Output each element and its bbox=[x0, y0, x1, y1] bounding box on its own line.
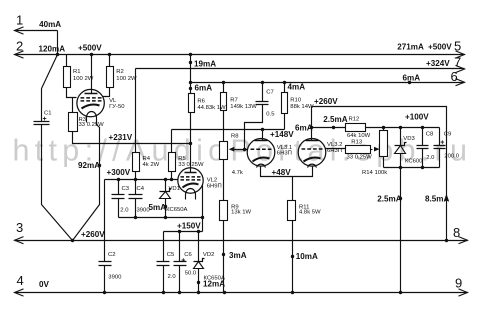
svg-text:C8: C8 bbox=[426, 132, 434, 138]
zener VD2 KC650A bbox=[194, 259, 205, 262]
R8 wiper arrow bbox=[229, 147, 235, 152]
wire +260V top bbox=[312, 107, 447, 241]
svg-text:8.5mA: 8.5mA bbox=[425, 194, 449, 203]
svg-text:6Н9П: 6Н9П bbox=[207, 183, 222, 189]
junction R4-C4 / +300V node bbox=[134, 178, 137, 181]
VL3.1 filament dome bbox=[257, 164, 266, 167]
terminal 6 arrow bbox=[456, 79, 465, 86]
svg-text:+260V: +260V bbox=[314, 97, 338, 106]
measure dot 92mA bbox=[98, 164, 101, 167]
terminal 8 arrow bbox=[459, 237, 468, 244]
resistor R8 bbox=[220, 142, 228, 160]
svg-text:6mA: 6mA bbox=[403, 73, 421, 82]
wire VL3.2 anode riser bbox=[311, 107, 313, 141]
VL2 anode bar bbox=[185, 172, 197, 174]
wire R3 riser bbox=[72, 98, 74, 113]
junction terminal1 drop / +500V rail bbox=[56, 53, 59, 56]
wire R5 riser bbox=[171, 130, 173, 180]
R14 wiper arrow bbox=[374, 147, 380, 152]
resistor R12 bbox=[346, 124, 366, 132]
VL1 cathode arc bbox=[82, 105, 100, 109]
wire vertical to R4 top bbox=[135, 69, 137, 153]
wire C2 riser bbox=[104, 180, 106, 293]
wire VL3.1 anode drop bbox=[262, 130, 264, 141]
junction R9 / 0V rail bbox=[223, 291, 226, 294]
svg-text:33 0.25W: 33 0.25W bbox=[178, 162, 204, 168]
svg-text:C3: C3 bbox=[122, 186, 130, 192]
measure dot 5mA bbox=[164, 205, 167, 208]
svg-text:2: 2 bbox=[16, 39, 23, 54]
measure dot 12mA bbox=[197, 281, 200, 284]
wire R9 chain bbox=[223, 160, 225, 293]
junction C8 bottom node bbox=[421, 166, 424, 169]
svg-text:8: 8 bbox=[453, 225, 460, 240]
svg-text:КС600: КС600 bbox=[405, 158, 423, 164]
resistor R4 bbox=[133, 153, 140, 172]
wire 19mA/6mA branch bbox=[190, 55, 192, 94]
measure dot 6mA terminal6 bbox=[408, 81, 411, 84]
svg-text:R13: R13 bbox=[351, 139, 363, 145]
svg-text:50.0: 50.0 bbox=[185, 270, 197, 276]
junction VL1 anode / +500V rail bbox=[90, 53, 93, 56]
svg-text:13k 1W: 13k 1W bbox=[231, 209, 251, 215]
wire R2 screen lead bbox=[103, 55, 110, 97]
svg-text:C6: C6 bbox=[184, 252, 192, 258]
svg-text:+: + bbox=[181, 258, 185, 265]
wire R1 grid lead bbox=[67, 55, 77, 98]
wire node C3C4VD1 horizontal bbox=[119, 217, 203, 219]
svg-text:C9: C9 bbox=[444, 132, 452, 138]
wire +100V node bbox=[312, 127, 440, 129]
measure dot 2.5mA lower bbox=[399, 197, 402, 200]
junction R2 / +500V rail bbox=[108, 53, 111, 56]
svg-text:R14 100k: R14 100k bbox=[362, 170, 387, 176]
svg-text:R2: R2 bbox=[116, 69, 124, 75]
svg-text:+260V: +260V bbox=[81, 230, 105, 239]
svg-text:10mA: 10mA bbox=[296, 252, 318, 261]
junction VD3 bottom node bbox=[399, 166, 402, 169]
junction C7 drop / VL3.1 grid wire bbox=[243, 148, 246, 151]
svg-text:19mA: 19mA bbox=[194, 59, 216, 68]
svg-text:КС650А: КС650А bbox=[204, 275, 225, 281]
junction VD3 top / +100V node bbox=[399, 126, 402, 129]
measure dot 6mA bbox=[189, 87, 192, 90]
wire terminal4/9 0V rail bbox=[15, 292, 468, 294]
wire R13 to R14 wiper bbox=[371, 149, 373, 151]
wire R7 leads bbox=[223, 83, 225, 142]
junction C4 bottom node bbox=[134, 216, 137, 219]
svg-text:+150V: +150V bbox=[177, 221, 201, 230]
svg-text:6Н3П: 6Н3П bbox=[327, 148, 342, 154]
svg-text:+300V: +300V bbox=[107, 168, 131, 177]
wire C9 chain bbox=[439, 128, 441, 168]
svg-text:2.5mA: 2.5mA bbox=[323, 115, 347, 124]
svg-text:3900: 3900 bbox=[137, 208, 151, 214]
svg-text:0V: 0V bbox=[39, 280, 50, 289]
svg-text:R8: R8 bbox=[231, 134, 239, 140]
wire C5 riser bbox=[163, 232, 165, 293]
svg-text:0.5: 0.5 bbox=[266, 111, 275, 117]
junction +260V riser / rail bbox=[445, 239, 448, 242]
svg-text:92mA: 92mA bbox=[78, 161, 100, 170]
svg-text:R1: R1 bbox=[73, 69, 81, 75]
wire VL1 filament right leg to funnel bbox=[73, 118, 100, 241]
junction filament funnel / +260V rail bbox=[71, 239, 74, 242]
svg-text:+324V: +324V bbox=[426, 59, 450, 68]
capacitor C9 bbox=[434, 146, 446, 149]
capacitor C2 bbox=[99, 262, 112, 266]
resistor R1 bbox=[64, 67, 71, 88]
resistor R10 bbox=[282, 93, 288, 114]
measure dot 3mA bbox=[222, 253, 225, 256]
junction R6 branch / +500V rail bbox=[189, 53, 192, 56]
wire C8 leads bbox=[422, 128, 424, 168]
VL2 filament dome bbox=[186, 189, 196, 195]
resistor R7 bbox=[221, 93, 227, 111]
junction +231V node / VL2 anode riser bbox=[189, 142, 192, 145]
svg-text:C4: C4 bbox=[137, 186, 145, 192]
resistor R11 bbox=[288, 201, 296, 221]
terminal 9 arrow bbox=[459, 289, 468, 296]
svg-text:ГУ-50: ГУ-50 bbox=[109, 104, 125, 110]
wire VL3.2 grid to R13 bbox=[326, 148, 346, 150]
wire C6 riser bbox=[179, 232, 181, 293]
svg-text:149k 13W: 149k 13W bbox=[230, 104, 257, 110]
resistor R13 bbox=[346, 146, 371, 154]
wire C7 chain bbox=[245, 83, 263, 150]
svg-text:4k 2W: 4k 2W bbox=[143, 162, 160, 168]
svg-text:88k 14W: 88k 14W bbox=[290, 104, 314, 110]
wire C3 riser bbox=[118, 180, 120, 218]
wire R10 leads bbox=[284, 83, 286, 93]
junction VD1 / +300V node bbox=[164, 178, 167, 181]
svg-text:+48V: +48V bbox=[272, 168, 292, 177]
wire +500V rail bbox=[15, 54, 465, 56]
VL3.2 filament dome bbox=[308, 164, 317, 167]
wire VL2 cathode riser bbox=[202, 185, 204, 232]
svg-text:33 0.25W: 33 0.25W bbox=[347, 155, 373, 161]
terminal 1 arrow bbox=[15, 27, 24, 34]
junction R7 top bbox=[222, 81, 225, 84]
junction VL3.2 anode riser / +100V branch bbox=[310, 126, 313, 129]
VL1 grid dashes bbox=[81, 97, 102, 99]
wire R11 chain bbox=[292, 177, 294, 293]
capacitor C6 bbox=[174, 262, 187, 266]
svg-text:271mA: 271mA bbox=[397, 43, 424, 52]
terminal 5 arrow bbox=[456, 51, 465, 58]
svg-text:R12: R12 bbox=[349, 117, 360, 123]
svg-text:R10: R10 bbox=[290, 98, 302, 104]
svg-text:6mA: 6mA bbox=[295, 123, 313, 132]
svg-text:R6: R6 bbox=[197, 98, 205, 104]
wire terminal3/8 +260V rail bbox=[15, 240, 468, 242]
measure dot 19mA bbox=[189, 61, 192, 64]
junction VL2 cathode riser / node bbox=[201, 216, 204, 219]
resistor R9 bbox=[220, 201, 228, 221]
svg-text:C7: C7 bbox=[266, 89, 274, 95]
wire +324V terminal7 bbox=[136, 68, 465, 70]
junction VD2 / 0V rail bbox=[197, 291, 200, 294]
svg-text:2.0: 2.0 bbox=[426, 155, 435, 161]
resistor R6 bbox=[189, 94, 195, 113]
VL3.1 cathode arc bbox=[253, 158, 270, 162]
svg-text:6Н3П: 6Н3П bbox=[277, 150, 292, 156]
wire R8 wiper to VL3.1 grid bbox=[231, 149, 248, 151]
wire +300V node bbox=[105, 179, 178, 181]
VL1 filament dome bbox=[87, 112, 97, 118]
junction C8 top / +100V node bbox=[421, 126, 424, 129]
resistor R5 bbox=[169, 153, 176, 172]
zener VD1 KC650A bbox=[160, 189, 172, 192]
svg-text:4.8k 5W: 4.8k 5W bbox=[299, 209, 321, 215]
junction C2 / 0V rail bbox=[103, 291, 106, 294]
svg-text:1: 1 bbox=[16, 13, 23, 28]
tube VL3.1 6N3P envelope bbox=[247, 139, 275, 167]
svg-text:+148V: +148V bbox=[270, 130, 294, 139]
svg-text:4mA: 4mA bbox=[288, 83, 306, 92]
svg-text:5: 5 bbox=[454, 39, 461, 54]
svg-text:C5: C5 bbox=[167, 252, 175, 258]
junction C5 / 0V rail bbox=[162, 291, 165, 294]
wire C4/R4 riser bbox=[135, 172, 137, 218]
junction R10 top bbox=[283, 81, 286, 84]
svg-text:100 2W: 100 2W bbox=[73, 76, 94, 82]
svg-text:VD1: VD1 bbox=[169, 186, 180, 192]
wire +150V node bbox=[164, 231, 203, 233]
zener VD3 KC600 bbox=[395, 143, 407, 146]
svg-text:3mA: 3mA bbox=[229, 251, 247, 260]
svg-text:R7: R7 bbox=[230, 98, 238, 104]
capacitor C4 bbox=[129, 195, 143, 199]
svg-text:+500V: +500V bbox=[428, 43, 452, 52]
svg-text:+: + bbox=[440, 140, 444, 147]
svg-text:33 0.25W: 33 0.25W bbox=[79, 122, 105, 128]
junction C3 / +300V node bbox=[117, 178, 120, 181]
VL3.1 grid dashes bbox=[251, 148, 272, 150]
svg-text:9: 9 bbox=[455, 276, 462, 291]
junction 6mA wire / R6 branch bbox=[189, 81, 192, 84]
junction VD1 bottom node bbox=[164, 216, 167, 219]
VL2 filament legs bbox=[186, 195, 196, 200]
VL2 grid dashes bbox=[181, 176, 201, 178]
capacitor C3 bbox=[112, 195, 125, 199]
potentiometer R14 bbox=[380, 131, 388, 157]
svg-text:+231V: +231V bbox=[109, 133, 133, 142]
svg-text:2.5mA: 2.5mA bbox=[377, 194, 401, 203]
svg-text:2.0: 2.0 bbox=[120, 208, 129, 214]
wire +231V node bbox=[73, 132, 191, 144]
tube VL1 GU-50 envelope bbox=[77, 89, 104, 116]
svg-text:+100V: +100V bbox=[405, 113, 429, 122]
VL3.1 anode bar bbox=[255, 140, 268, 142]
junction R5 / +300V node bbox=[170, 178, 173, 181]
svg-text:44.83k 1W: 44.83k 1W bbox=[197, 105, 226, 111]
wire R14 leads bbox=[383, 128, 385, 168]
capacitor C8 bbox=[417, 146, 429, 149]
junction VD2 / +150V node bbox=[197, 230, 200, 233]
capacitor C7 bbox=[256, 102, 269, 105]
wire VD2 chain bbox=[198, 232, 200, 293]
svg-text:7: 7 bbox=[454, 54, 461, 69]
VL3.2 grid dashes bbox=[302, 148, 323, 150]
junction R14 top / +100V node bbox=[382, 126, 385, 129]
measure dot 8.5mA bbox=[445, 198, 448, 201]
wire terminal1 40mA bbox=[15, 31, 58, 55]
junction VL3.1 anode / interstage node bbox=[261, 128, 264, 131]
VL2 cathode arc bbox=[183, 184, 199, 188]
VL3.2 cathode arc bbox=[304, 158, 321, 162]
junction C6 / +150V node bbox=[178, 230, 181, 233]
svg-text:+500V: +500V bbox=[78, 43, 102, 52]
resistor R2 bbox=[107, 67, 114, 88]
svg-text:3: 3 bbox=[16, 220, 23, 235]
svg-text:6mA: 6mA bbox=[195, 83, 213, 92]
measure dot 10mA bbox=[291, 255, 294, 258]
svg-text:5mA: 5mA bbox=[149, 203, 167, 212]
svg-text:200.0: 200.0 bbox=[444, 154, 459, 160]
wire interstage node y129 bbox=[172, 114, 285, 130]
svg-text:VD2: VD2 bbox=[203, 252, 214, 258]
VL3.2 anode bar bbox=[306, 140, 319, 142]
svg-text:VD3: VD3 bbox=[403, 136, 415, 142]
tube VL2 6N9P envelope bbox=[178, 168, 203, 193]
wire VD1 chain bbox=[165, 180, 167, 218]
svg-text:120mA: 120mA bbox=[39, 45, 66, 54]
svg-text:КС650А: КС650А bbox=[166, 207, 187, 213]
svg-text:VL3.2: VL3.2 bbox=[327, 142, 342, 148]
svg-text:C2: C2 bbox=[108, 252, 116, 258]
wire VD3 chain bbox=[400, 128, 402, 293]
svg-text:4: 4 bbox=[17, 273, 24, 288]
svg-text:6: 6 bbox=[451, 69, 458, 84]
terminal 4 arrow bbox=[15, 289, 24, 296]
wire VD3 bottom node bbox=[384, 167, 440, 169]
svg-text:64k 10W: 64k 10W bbox=[347, 133, 371, 139]
capacitor C5 bbox=[157, 262, 170, 266]
terminal 3 arrow bbox=[15, 237, 24, 244]
junction R11 / 0V rail bbox=[291, 291, 294, 294]
capacitor C1 bbox=[34, 122, 50, 125]
wire input funnel left C1 bbox=[42, 55, 58, 122]
wire VL3 cathodes +48V bbox=[261, 167, 313, 177]
svg-text:4.7k: 4.7k bbox=[232, 170, 243, 176]
tube VL3.2 6N3P envelope bbox=[298, 139, 326, 167]
svg-text:+: + bbox=[43, 116, 47, 123]
junction C6 / 0V rail bbox=[178, 291, 181, 294]
resistor R3 bbox=[69, 113, 78, 132]
junction C7 top bbox=[261, 81, 264, 84]
wire 6mA terminal6 bbox=[191, 82, 465, 84]
wire VL1 anode lead bbox=[91, 55, 93, 94]
svg-text:3900: 3900 bbox=[108, 275, 122, 281]
junction VD3 chain / 0V rail bbox=[399, 291, 402, 294]
wire R6 to VL2 anode bbox=[190, 113, 192, 173]
svg-text:40mA: 40mA bbox=[39, 20, 61, 29]
wire VL1 filament left leg bbox=[86, 118, 88, 123]
terminal 7 arrow bbox=[456, 65, 465, 72]
measure dot 2.5mA bbox=[332, 126, 335, 129]
svg-text:100 2W: 100 2W bbox=[116, 76, 137, 82]
terminal 2 arrow bbox=[15, 51, 24, 58]
VL1 anode bar bbox=[85, 93, 98, 95]
svg-text:2.0: 2.0 bbox=[168, 274, 177, 280]
